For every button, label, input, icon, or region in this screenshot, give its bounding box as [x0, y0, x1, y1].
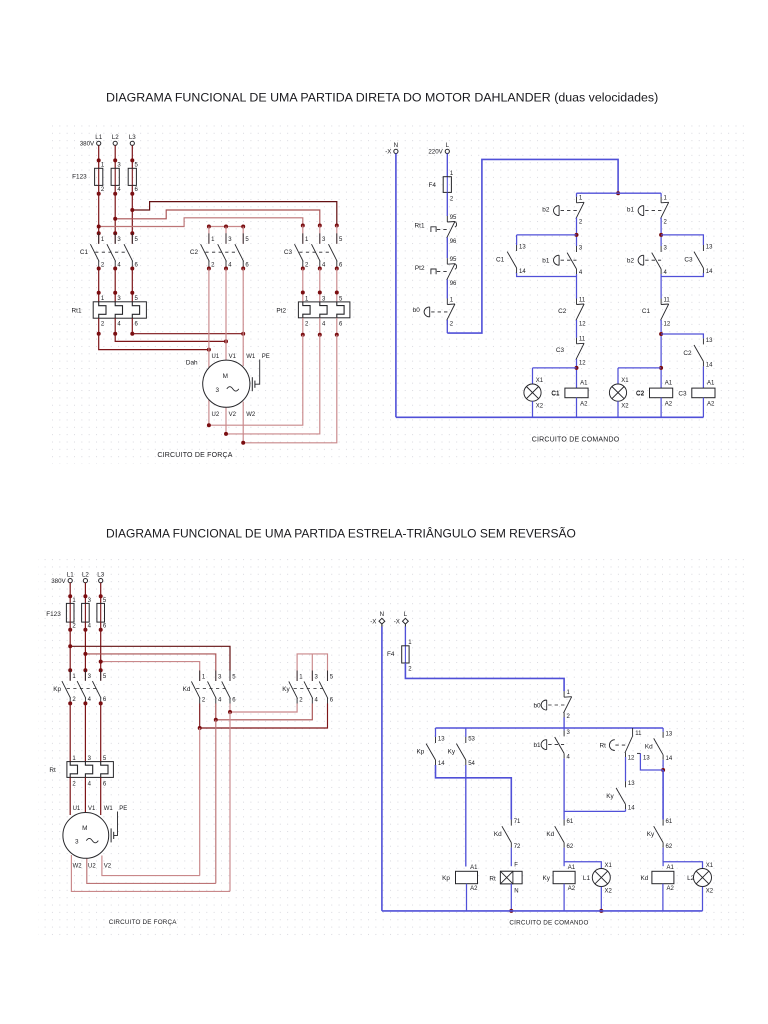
svg-text:L: L — [446, 142, 450, 149]
svg-text:61: 61 — [666, 819, 673, 825]
svg-text:12: 12 — [579, 361, 586, 367]
svg-text:Rt: Rt — [49, 767, 56, 774]
svg-text:Dah: Dah — [186, 360, 198, 367]
svg-text:C3: C3 — [678, 390, 687, 397]
svg-text:b2: b2 — [627, 258, 635, 265]
svg-text:62: 62 — [666, 844, 673, 850]
svg-text:A1: A1 — [470, 865, 478, 871]
svg-text:13: 13 — [706, 245, 713, 251]
svg-text:13: 13 — [666, 731, 673, 737]
svg-text:V1: V1 — [229, 354, 237, 360]
svg-text:C2: C2 — [190, 249, 199, 256]
svg-text:L: L — [404, 611, 408, 618]
svg-text:Rt1: Rt1 — [415, 223, 425, 230]
svg-text:-X: -X — [385, 149, 391, 156]
svg-text:Kp: Kp — [442, 875, 450, 882]
svg-text:A2: A2 — [580, 402, 588, 408]
svg-text:53: 53 — [468, 737, 475, 743]
svg-text:C2: C2 — [683, 350, 692, 357]
svg-text:95: 95 — [450, 215, 457, 221]
svg-text:11: 11 — [635, 731, 642, 737]
svg-text:14: 14 — [628, 806, 635, 812]
svg-text:96: 96 — [450, 281, 457, 287]
svg-text:Kp: Kp — [416, 749, 424, 756]
svg-text:3: 3 — [216, 387, 220, 394]
svg-text:13: 13 — [438, 737, 445, 743]
svg-text:C1: C1 — [642, 308, 651, 315]
svg-text:U2: U2 — [212, 412, 220, 418]
svg-text:b1: b1 — [627, 206, 635, 213]
svg-text:DIAGRAMA FUNCIONAL DE UMA PART: DIAGRAMA FUNCIONAL DE UMA PARTIDA ESTREL… — [106, 526, 576, 541]
svg-text:V1: V1 — [88, 806, 96, 812]
svg-text:Pt2: Pt2 — [276, 307, 286, 314]
svg-text:U2: U2 — [88, 864, 96, 870]
svg-text:54: 54 — [468, 761, 475, 767]
svg-text:A2: A2 — [667, 886, 675, 892]
svg-text:13: 13 — [519, 245, 526, 251]
svg-text:X1: X1 — [621, 378, 629, 384]
svg-text:F4: F4 — [387, 651, 395, 658]
svg-text:CIRCUITO DE FORÇA: CIRCUITO DE FORÇA — [109, 919, 178, 926]
svg-text:Ky: Ky — [543, 875, 551, 882]
svg-text:11: 11 — [579, 297, 586, 303]
svg-text:14: 14 — [519, 269, 526, 275]
svg-text:14: 14 — [706, 269, 713, 275]
svg-text:F123: F123 — [72, 174, 87, 181]
svg-text:X1: X1 — [706, 863, 714, 869]
svg-text:F4: F4 — [429, 182, 437, 189]
svg-text:A2: A2 — [470, 886, 478, 892]
svg-text:C1: C1 — [80, 249, 89, 256]
svg-text:-X: -X — [394, 619, 400, 626]
svg-text:Kp: Kp — [53, 686, 61, 693]
svg-text:Ky: Ky — [448, 749, 456, 756]
svg-text:Kd: Kd — [640, 875, 648, 882]
svg-text:L1: L1 — [67, 571, 74, 578]
svg-text:72: 72 — [514, 844, 521, 850]
svg-text:14: 14 — [438, 761, 445, 767]
svg-text:M: M — [82, 825, 87, 832]
svg-text:M: M — [223, 373, 228, 380]
svg-text:F123: F123 — [46, 611, 61, 618]
svg-text:Kd: Kd — [183, 686, 191, 693]
svg-text:-X: -X — [370, 619, 376, 626]
svg-text:A1: A1 — [667, 865, 675, 871]
svg-text:W2: W2 — [246, 412, 256, 418]
svg-text:L1: L1 — [95, 134, 102, 141]
svg-text:b0: b0 — [533, 702, 541, 709]
svg-text:V2: V2 — [229, 412, 237, 418]
svg-text:L2: L2 — [82, 571, 89, 578]
svg-text:A1: A1 — [707, 381, 715, 387]
svg-text:Ky: Ky — [647, 831, 655, 838]
svg-text:C3: C3 — [556, 347, 565, 354]
svg-text:N: N — [514, 888, 518, 894]
svg-text:CIRCUITO DE COMANDO: CIRCUITO DE COMANDO — [532, 437, 620, 444]
svg-text:X1: X1 — [536, 378, 544, 384]
svg-text:380V: 380V — [51, 578, 66, 585]
svg-text:12: 12 — [664, 321, 671, 327]
svg-text:13: 13 — [628, 781, 635, 787]
svg-text:Kd: Kd — [645, 743, 653, 750]
svg-text:Ky: Ky — [282, 686, 290, 693]
svg-text:L3: L3 — [129, 134, 136, 141]
svg-text:Rt: Rt — [489, 875, 496, 882]
svg-text:96: 96 — [450, 239, 457, 245]
svg-text:62: 62 — [567, 844, 574, 850]
svg-text:14: 14 — [706, 363, 713, 369]
svg-text:Ky: Ky — [606, 793, 614, 800]
svg-text:A1: A1 — [665, 381, 673, 387]
svg-text:11: 11 — [579, 337, 586, 343]
svg-text:3: 3 — [75, 839, 79, 846]
svg-text:X2: X2 — [536, 403, 544, 409]
svg-text:Kd: Kd — [546, 831, 554, 838]
svg-text:W1: W1 — [104, 806, 114, 812]
svg-text:L2: L2 — [112, 134, 119, 141]
svg-text:b0: b0 — [413, 307, 421, 314]
svg-text:12: 12 — [579, 321, 586, 327]
svg-text:Kd: Kd — [494, 831, 502, 838]
svg-text:Rt: Rt — [599, 742, 606, 749]
svg-text:11: 11 — [664, 297, 671, 303]
svg-text:U1: U1 — [73, 806, 81, 812]
svg-text:C3: C3 — [284, 249, 293, 256]
svg-text:C2: C2 — [558, 308, 567, 315]
svg-text:U1: U1 — [212, 354, 220, 360]
svg-text:CIRCUITO DE FORÇA: CIRCUITO DE FORÇA — [157, 452, 232, 459]
svg-text:C1: C1 — [496, 257, 505, 264]
svg-text:W2: W2 — [73, 864, 83, 870]
svg-text:W1: W1 — [246, 354, 256, 360]
svg-text:12: 12 — [628, 756, 635, 762]
svg-text:A1: A1 — [568, 865, 576, 871]
svg-text:A1: A1 — [580, 381, 588, 387]
svg-text:13: 13 — [643, 756, 650, 762]
svg-text:N: N — [394, 142, 398, 149]
svg-text:V2: V2 — [104, 864, 112, 870]
svg-text:A2: A2 — [568, 886, 576, 892]
svg-text:A2: A2 — [707, 402, 715, 408]
svg-text:b1: b1 — [533, 742, 541, 749]
svg-text:L2: L2 — [687, 875, 695, 882]
svg-text:C2: C2 — [636, 390, 645, 397]
svg-text:F: F — [514, 862, 518, 868]
svg-text:X2: X2 — [605, 888, 613, 894]
svg-text:95: 95 — [450, 257, 457, 263]
svg-text:b1: b1 — [542, 258, 550, 265]
svg-text:PE: PE — [119, 806, 127, 812]
svg-text:Rt1: Rt1 — [72, 307, 82, 314]
svg-text:220V: 220V — [428, 149, 443, 156]
svg-text:71: 71 — [514, 819, 521, 825]
svg-text:X2: X2 — [621, 403, 629, 409]
svg-text:13: 13 — [706, 338, 713, 344]
svg-text:14: 14 — [666, 756, 673, 762]
svg-text:C1: C1 — [551, 390, 560, 397]
svg-text:A2: A2 — [665, 402, 673, 408]
svg-text:L1: L1 — [583, 875, 591, 882]
svg-text:PE: PE — [262, 354, 270, 360]
svg-text:Pt2: Pt2 — [415, 265, 425, 272]
svg-text:DIAGRAMA FUNCIONAL DE UMA PART: DIAGRAMA FUNCIONAL DE UMA PARTIDA DIRETA… — [106, 91, 658, 105]
svg-text:L3: L3 — [97, 571, 104, 578]
svg-text:C3: C3 — [684, 257, 693, 264]
svg-text:CIRCUITO DE COMANDO: CIRCUITO DE COMANDO — [509, 919, 588, 926]
svg-text:X1: X1 — [605, 863, 613, 869]
svg-text:N: N — [380, 611, 384, 618]
svg-text:380V: 380V — [80, 141, 95, 148]
svg-text:61: 61 — [567, 819, 574, 825]
svg-text:X2: X2 — [706, 888, 714, 894]
svg-text:b2: b2 — [542, 206, 550, 213]
